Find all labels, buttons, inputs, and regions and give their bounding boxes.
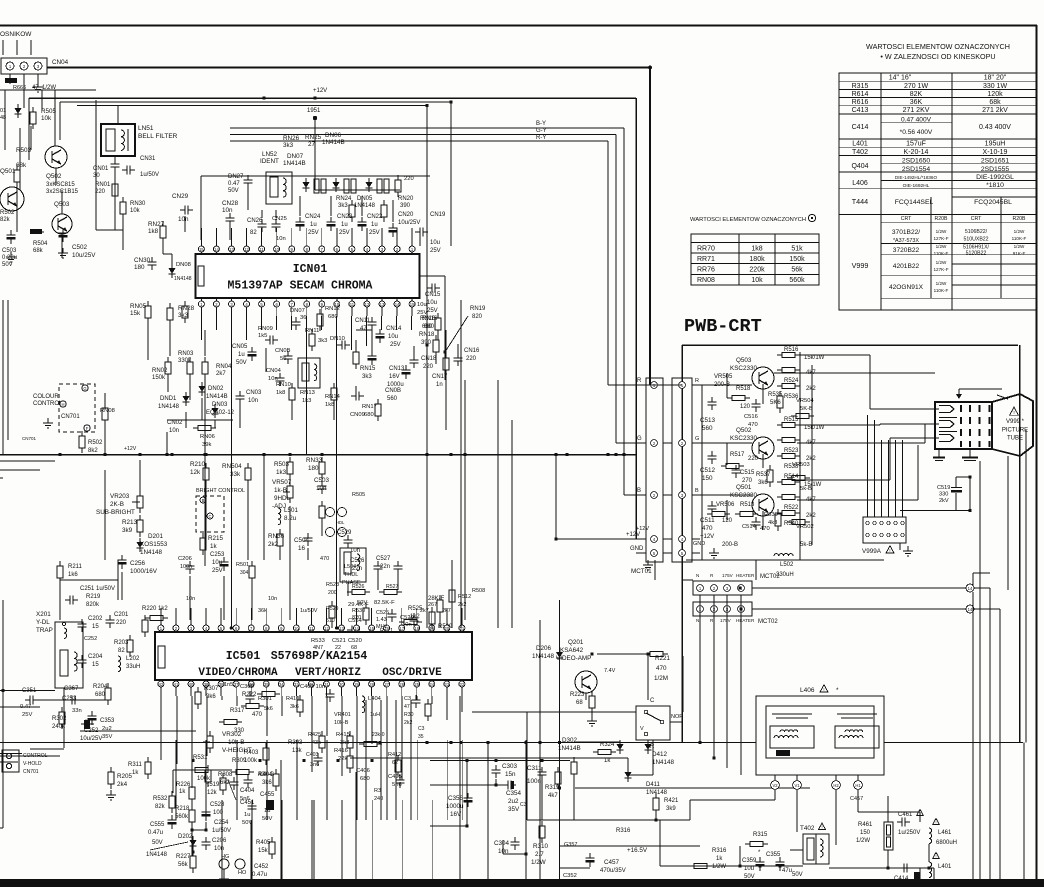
- svg-text:CN14: CN14: [386, 326, 402, 332]
- svg-text:RN15: RN15: [360, 366, 376, 372]
- svg-text:R307: R307: [204, 686, 219, 692]
- svg-text:2k7: 2k7: [442, 608, 451, 614]
- svg-text:C451: C451: [240, 800, 255, 806]
- svg-text:175V: 175V: [720, 618, 732, 623]
- svg-text:3k9: 3k9: [122, 527, 133, 534]
- svg-text:22: 22: [460, 682, 465, 687]
- svg-text:560: 560: [702, 425, 713, 432]
- svg-text:1N414B: 1N414B: [283, 160, 306, 167]
- svg-text:470: 470: [320, 556, 329, 562]
- svg-text:1k8: 1k8: [148, 228, 159, 235]
- svg-text:N: N: [696, 573, 699, 578]
- svg-text:C256: C256: [130, 560, 146, 567]
- svg-text:R-Y: R-Y: [536, 135, 546, 141]
- svg-text:175V: 175V: [722, 573, 734, 578]
- svg-text:KSA642: KSA642: [560, 647, 584, 654]
- svg-text:R529: R529: [326, 606, 339, 612]
- svg-text:1u/50V: 1u/50V: [140, 172, 159, 178]
- svg-text:RN504: RN504: [222, 463, 242, 470]
- svg-text:CN02: CN02: [167, 420, 183, 426]
- svg-text:C309: C309: [240, 684, 254, 690]
- svg-text:C253: C253: [210, 552, 225, 558]
- svg-text:RN24: RN24: [336, 196, 352, 202]
- svg-text:24: 24: [429, 682, 434, 687]
- svg-text:220: 220: [116, 620, 127, 626]
- svg-text:R508: R508: [472, 588, 485, 594]
- svg-text:50V: 50V: [152, 840, 163, 846]
- svg-text:50V: 50V: [792, 872, 803, 878]
- svg-text:25V: 25V: [390, 342, 401, 348]
- svg-text:47: 47: [404, 704, 410, 710]
- svg-text:C304: C304: [494, 840, 510, 847]
- svg-text:KSC2330: KSC2330: [730, 365, 757, 372]
- svg-text:10u: 10u: [430, 240, 440, 246]
- svg-text:82: 82: [118, 648, 125, 654]
- svg-text:!: !: [821, 825, 822, 830]
- svg-text:220k: 220k: [749, 267, 765, 274]
- svg-text:25V: 25V: [369, 230, 380, 236]
- svg-text:K-20-14: K-20-14: [904, 149, 929, 156]
- svg-text:120k: 120k: [987, 91, 1003, 98]
- svg-text:CN701: CN701: [23, 769, 39, 775]
- svg-text:8k2: 8k2: [88, 448, 98, 454]
- svg-text:3k3: 3k3: [362, 374, 372, 380]
- svg-text:G: G: [637, 436, 642, 442]
- svg-text:820: 820: [352, 615, 361, 621]
- svg-text:110K-F: 110K-F: [1012, 236, 1027, 241]
- svg-text:25V: 25V: [339, 230, 350, 236]
- svg-text:3720B22: 3720B22: [893, 247, 920, 254]
- svg-text:RR70: RR70: [697, 246, 715, 253]
- svg-text:56k: 56k: [791, 267, 803, 274]
- svg-text:35: 35: [418, 734, 424, 740]
- svg-text:1u/50V: 1u/50V: [300, 608, 318, 614]
- svg-text:26: 26: [399, 682, 404, 687]
- svg-text:T444: T444: [852, 197, 868, 206]
- svg-text:PWB-CRT: PWB-CRT: [684, 316, 762, 337]
- svg-text:!: !: [936, 821, 937, 825]
- svg-text:820: 820: [472, 314, 483, 320]
- svg-text:VERT/HORIZ: VERT/HORIZ: [295, 667, 361, 679]
- svg-text:271 2kV: 271 2kV: [982, 107, 1008, 114]
- svg-text:270 1W: 270 1W: [904, 83, 929, 90]
- svg-text:560: 560: [387, 396, 398, 402]
- svg-text:36k: 36k: [258, 608, 267, 614]
- svg-text:2SD1555: 2SD1555: [981, 166, 1010, 173]
- svg-text:18" 20": 18" 20": [984, 75, 1007, 82]
- svg-text:5k-B: 5k-B: [800, 486, 812, 492]
- svg-text:WARTOSCI ELEMENTOW OZNACZONYCH: WARTOSCI ELEMENTOW OZNACZONYCH: [866, 42, 1010, 51]
- svg-text:2u2: 2u2: [508, 798, 519, 805]
- svg-text:40: 40: [189, 682, 194, 687]
- svg-text:!: !: [1013, 410, 1014, 416]
- svg-text:V999 *: V999 *: [1006, 419, 1025, 425]
- svg-text:820k: 820k: [86, 602, 100, 608]
- svg-text:680: 680: [360, 776, 370, 782]
- svg-text:12k: 12k: [190, 469, 201, 476]
- svg-text:BELL FILTER: BELL FILTER: [138, 133, 178, 140]
- svg-text:10u/25V: 10u/25V: [398, 220, 420, 226]
- svg-text:1N414B: 1N414B: [322, 139, 345, 146]
- svg-text:RR76: RR76: [697, 267, 715, 274]
- svg-text:180k: 180k: [749, 256, 765, 263]
- svg-text:FCQ2045BL: FCQ2045BL: [974, 199, 1012, 206]
- svg-text:0.47u: 0.47u: [252, 872, 267, 878]
- svg-text:1k5: 1k5: [258, 333, 267, 339]
- svg-text:R20B: R20B: [935, 216, 949, 222]
- svg-text:R218: R218: [175, 806, 190, 812]
- svg-text:680: 680: [422, 324, 433, 330]
- svg-text:68k: 68k: [989, 99, 1001, 106]
- svg-text:1k8: 1k8: [276, 390, 285, 396]
- svg-text:BRIGHT CONTROL: BRIGHT CONTROL: [196, 488, 245, 494]
- svg-text:150k: 150k: [789, 256, 805, 263]
- svg-text:200-B: 200-B: [722, 542, 738, 548]
- svg-text:12k: 12k: [207, 790, 218, 796]
- svg-text:L461: L461: [938, 830, 952, 836]
- svg-text:CN11: CN11: [355, 318, 371, 324]
- svg-text:DN06: DN06: [325, 132, 342, 139]
- svg-text:X201: X201: [36, 611, 51, 618]
- svg-text:12: 12: [244, 247, 249, 252]
- svg-text:WARTOSCI ELEMENTOW OZNACZONYCH: WARTOSCI ELEMENTOW OZNACZONYCH: [690, 217, 806, 223]
- svg-text:R205: R205: [117, 773, 133, 780]
- svg-text:14: 14: [214, 247, 219, 252]
- svg-text:+12V: +12V: [626, 532, 640, 538]
- svg-text:2k7: 2k7: [420, 608, 429, 614]
- svg-text:R308: R308: [218, 772, 233, 778]
- svg-text:ICN01: ICN01: [293, 263, 328, 276]
- svg-text:VR503: VR503: [792, 462, 810, 468]
- svg-text:FCQ144SEL: FCQ144SEL: [895, 199, 934, 206]
- svg-text:R310: R310: [533, 843, 549, 850]
- svg-text:10k: 10k: [130, 208, 141, 214]
- svg-text:1N4148: 1N4148: [146, 852, 168, 858]
- svg-text:DIE-1492HL/*1836O: DIE-1492HL/*1836O: [895, 175, 938, 180]
- svg-text:5k-B: 5k-B: [800, 542, 812, 548]
- svg-text:R535: R535: [768, 392, 783, 398]
- svg-text:L502: L502: [780, 562, 794, 568]
- svg-text:CN09: CN09: [350, 412, 365, 418]
- svg-text:82k: 82k: [0, 217, 11, 223]
- svg-text:C251: C251: [80, 586, 95, 592]
- svg-text:M51397AP SECAM CHROMA: M51397AP SECAM CHROMA: [228, 280, 373, 293]
- svg-text:KOS1553: KOS1553: [140, 541, 168, 548]
- svg-text:41: 41: [174, 682, 179, 687]
- svg-text:CONTROL: CONTROL: [33, 401, 63, 407]
- svg-text:1k: 1k: [716, 856, 723, 862]
- svg-text:10n: 10n: [214, 846, 224, 852]
- svg-text:10n: 10n: [248, 398, 258, 404]
- svg-text:50V: 50V: [228, 188, 239, 194]
- svg-text:127K-F: 127K-F: [933, 267, 948, 272]
- svg-text:1N4148: 1N4148: [532, 653, 555, 660]
- svg-text:1k: 1k: [132, 770, 139, 776]
- svg-text:C503: C503: [2, 248, 17, 254]
- svg-text:CN04: CN04: [266, 368, 282, 374]
- svg-text:3701B22/: 3701B22/: [892, 229, 920, 236]
- svg-text:16V: 16V: [389, 374, 400, 380]
- svg-text:1/2M: 1/2M: [654, 675, 668, 682]
- svg-text:470: 470: [252, 712, 263, 718]
- svg-text:C519: C519: [937, 485, 950, 491]
- svg-text:RN06: RN06: [200, 434, 215, 440]
- svg-text:G: G: [83, 386, 86, 391]
- svg-text:1N4148: 1N4148: [646, 790, 668, 796]
- svg-text:68k: 68k: [33, 248, 44, 254]
- svg-text:10u/25V: 10u/25V: [80, 736, 102, 742]
- svg-text:13: 13: [339, 626, 344, 631]
- svg-text:RN08: RN08: [697, 277, 715, 284]
- svg-text:MCT02: MCT02: [760, 574, 780, 580]
- svg-text:1/2W: 1/2W: [531, 859, 546, 866]
- svg-text:C252: C252: [84, 636, 97, 642]
- svg-text:VIDEO-AMP: VIDEO-AMP: [556, 655, 591, 662]
- svg-text:RN03: RN03: [178, 351, 194, 357]
- svg-text:R502: R502: [0, 210, 15, 216]
- svg-text:C455: C455: [260, 792, 275, 798]
- svg-text:30: 30: [93, 173, 100, 179]
- svg-text:10n: 10n: [402, 622, 412, 628]
- svg-text:C515: C515: [740, 470, 755, 476]
- svg-text:R415: R415: [336, 732, 350, 738]
- svg-text:D412: D412: [652, 751, 668, 758]
- svg-text:1/2W: 1/2W: [1014, 244, 1025, 249]
- svg-text:V: V: [640, 726, 644, 732]
- svg-text:3k3: 3k3: [338, 203, 348, 209]
- svg-text:C516: C516: [744, 414, 758, 420]
- svg-text:OSNIKOW: OSNIKOW: [0, 31, 32, 38]
- svg-text:C414: C414: [894, 876, 909, 882]
- svg-text:CN26: CN26: [247, 218, 263, 224]
- svg-text:3k6: 3k6: [206, 694, 216, 700]
- svg-text:150k: 150k: [152, 375, 166, 381]
- svg-text:1k8: 1k8: [751, 246, 762, 253]
- svg-text:15k/1W: 15k/1W: [804, 355, 825, 361]
- svg-text:2k2: 2k2: [806, 386, 816, 392]
- svg-text:C452: C452: [254, 864, 269, 870]
- svg-text:R404: R404: [258, 772, 273, 778]
- svg-text:1/2W: 1/2W: [712, 864, 726, 870]
- svg-text:RN05: RN05: [130, 303, 147, 310]
- svg-text:R533: R533: [311, 638, 325, 644]
- svg-text:R: R: [637, 378, 642, 384]
- svg-text:C354: C354: [506, 790, 522, 797]
- svg-text:4k3: 4k3: [768, 520, 777, 526]
- svg-text:DN27: DN27: [228, 174, 244, 180]
- svg-text:R223: R223: [570, 692, 585, 698]
- svg-text:1N4148: 1N4148: [354, 203, 376, 209]
- svg-text:D411: D411: [646, 782, 661, 788]
- svg-text:1N4148: 1N4148: [140, 549, 163, 556]
- svg-text:27: 27: [384, 682, 389, 687]
- svg-text:1k: 1k: [179, 789, 186, 795]
- svg-text:C461: C461: [898, 812, 913, 818]
- svg-text:91K-F: 91K-F: [1013, 251, 1026, 256]
- svg-text:50V: 50V: [744, 874, 755, 880]
- svg-text:330: 330: [939, 492, 948, 498]
- svg-text:10u: 10u: [388, 334, 398, 340]
- svg-text:1n: 1n: [436, 382, 443, 388]
- svg-text:35: 35: [264, 682, 269, 687]
- svg-text:HO: HO: [238, 870, 247, 876]
- svg-text:C457: C457: [604, 859, 620, 866]
- svg-text:C352: C352: [563, 873, 577, 879]
- svg-text:*A37-573X: *A37-573X: [893, 238, 919, 244]
- svg-text:50V: 50V: [236, 360, 247, 366]
- svg-text:2SD1554: 2SD1554: [902, 166, 931, 173]
- svg-text:VR507: VR507: [272, 479, 292, 486]
- svg-text:!: !: [889, 548, 890, 553]
- svg-text:470: 470: [760, 526, 770, 532]
- svg-text:RN16: RN16: [420, 316, 436, 322]
- svg-text:C353: C353: [100, 718, 115, 724]
- svg-text:R526: R526: [352, 584, 365, 590]
- svg-text:42: 42: [159, 682, 164, 687]
- svg-text:47: 47: [360, 326, 367, 332]
- svg-text:X-10-19: X-10-19: [983, 149, 1008, 156]
- svg-text:25V: 25V: [22, 712, 32, 718]
- svg-text:D206: D206: [536, 645, 552, 652]
- svg-text:C527: C527: [376, 556, 391, 562]
- svg-text:15: 15: [92, 624, 99, 630]
- svg-text:R316: R316: [712, 848, 727, 854]
- svg-text:1k: 1k: [604, 758, 611, 764]
- svg-text:R315: R315: [753, 832, 768, 838]
- svg-text:R539: R539: [764, 512, 778, 518]
- svg-text:271 2KV: 271 2KV: [903, 107, 930, 114]
- svg-text:Q503: Q503: [736, 357, 752, 364]
- svg-text:C414: C414: [852, 124, 869, 131]
- svg-text:C201: C201: [114, 612, 129, 618]
- svg-text:1k6: 1k6: [68, 572, 78, 578]
- svg-text:50V: 50V: [2, 262, 13, 268]
- svg-text:2k2: 2k2: [806, 513, 816, 519]
- svg-text:C206: C206: [212, 838, 227, 844]
- svg-text:C367: C367: [64, 686, 79, 692]
- svg-text:D202: D202: [178, 834, 193, 840]
- svg-text:CN01: CN01: [93, 166, 109, 172]
- svg-text:35V: 35V: [102, 734, 112, 740]
- svg-text:VR302: VR302: [222, 731, 242, 738]
- svg-text:IC501: IC501: [226, 650, 261, 663]
- svg-text:33n: 33n: [72, 708, 82, 714]
- svg-text:CN22: CN22: [367, 214, 383, 220]
- svg-text:RN30: RN30: [130, 201, 146, 207]
- svg-text:127K-F: 127K-F: [933, 236, 948, 241]
- svg-text:12: 12: [324, 626, 329, 631]
- svg-text:1N414B: 1N414B: [558, 745, 581, 752]
- svg-text:R519: R519: [205, 782, 220, 788]
- svg-text:B: B: [695, 488, 699, 494]
- svg-text:R204: R204: [93, 684, 108, 690]
- svg-text:L501: L501: [284, 507, 299, 514]
- svg-text:23k-0: 23k-0: [372, 732, 385, 738]
- svg-text:R614: R614: [852, 91, 869, 98]
- svg-text:CN701: CN701: [61, 414, 80, 420]
- svg-text:LN51: LN51: [138, 125, 154, 132]
- svg-text:3k3: 3k3: [318, 338, 327, 344]
- svg-text:10u/25V: 10u/25V: [72, 252, 96, 259]
- svg-text:56k: 56k: [178, 862, 189, 868]
- svg-text:CN19: CN19: [430, 212, 446, 218]
- svg-text:L202: L202: [126, 656, 140, 662]
- svg-text:39k: 39k: [202, 442, 211, 448]
- svg-text:2k4: 2k4: [117, 781, 128, 788]
- svg-text:CN701: CN701: [22, 436, 37, 441]
- svg-text:RN19: RN19: [470, 306, 486, 312]
- svg-text:110K-F: 110K-F: [934, 288, 949, 293]
- svg-text:KSC2330: KSC2330: [730, 435, 757, 442]
- svg-text:+12V: +12V: [636, 526, 649, 532]
- svg-text:CN29: CN29: [172, 193, 189, 200]
- svg-text:C359: C359: [742, 858, 757, 864]
- svg-text:3k3: 3k3: [283, 142, 294, 149]
- svg-text:1N4148: 1N4148: [174, 276, 192, 282]
- svg-text:16: 16: [298, 545, 306, 552]
- svg-text:VR505: VR505: [714, 374, 733, 380]
- svg-text:R504: R504: [33, 241, 48, 247]
- svg-text:G-Y: G-Y: [536, 128, 547, 134]
- svg-text:C202: C202: [88, 616, 103, 622]
- svg-text:1/2W: 1/2W: [936, 260, 947, 265]
- svg-text:1000u: 1000u: [446, 803, 464, 810]
- svg-text:1000/16V: 1000/16V: [130, 568, 158, 575]
- svg-text:H2: H2: [833, 783, 839, 788]
- svg-text:L406: L406: [800, 687, 815, 694]
- svg-text:12: 12: [365, 302, 370, 307]
- svg-text:R518: R518: [736, 386, 751, 392]
- svg-text:13: 13: [229, 247, 234, 252]
- svg-text:B: B: [637, 488, 641, 494]
- svg-text:R517: R517: [730, 452, 745, 458]
- svg-text:220: 220: [748, 456, 759, 462]
- svg-text:560k: 560k: [789, 277, 805, 284]
- svg-text:R403: R403: [244, 750, 259, 756]
- svg-text:C351: C351: [22, 688, 37, 694]
- svg-text:C: C: [650, 698, 655, 704]
- svg-text:15: 15: [92, 662, 99, 668]
- svg-text:+16.5V: +16.5V: [627, 847, 648, 854]
- svg-text:CN24: CN24: [305, 214, 321, 220]
- svg-text:470: 470: [702, 525, 713, 532]
- svg-text:15: 15: [410, 302, 415, 307]
- svg-text:R505: R505: [41, 108, 57, 115]
- svg-text:C526: C526: [350, 558, 365, 564]
- svg-text:2kV: 2kV: [939, 498, 949, 504]
- svg-text:5k6: 5k6: [264, 706, 273, 712]
- svg-text:37: 37: [234, 682, 239, 687]
- svg-text:270: 270: [742, 478, 753, 484]
- svg-text:RN26: RN26: [283, 135, 300, 142]
- svg-text:Q502: Q502: [736, 427, 752, 434]
- svg-text:T402: T402: [800, 825, 815, 832]
- svg-text:22: 22: [335, 645, 341, 651]
- svg-text:CN18: CN18: [421, 356, 437, 362]
- svg-text:33uH: 33uH: [126, 664, 140, 670]
- svg-text:220: 220: [95, 189, 106, 195]
- svg-text:10u: 10u: [427, 300, 437, 306]
- svg-text:10k: 10k: [751, 277, 763, 284]
- svg-text:C529: C529: [337, 530, 352, 536]
- svg-text:C555: C555: [150, 822, 165, 828]
- svg-text:L401: L401: [852, 141, 868, 148]
- svg-text:MCT02: MCT02: [758, 619, 778, 625]
- svg-text:GND: GND: [630, 546, 644, 552]
- svg-text:34: 34: [279, 682, 284, 687]
- svg-text:N: N: [696, 618, 699, 623]
- svg-text:CN31: CN31: [140, 156, 156, 162]
